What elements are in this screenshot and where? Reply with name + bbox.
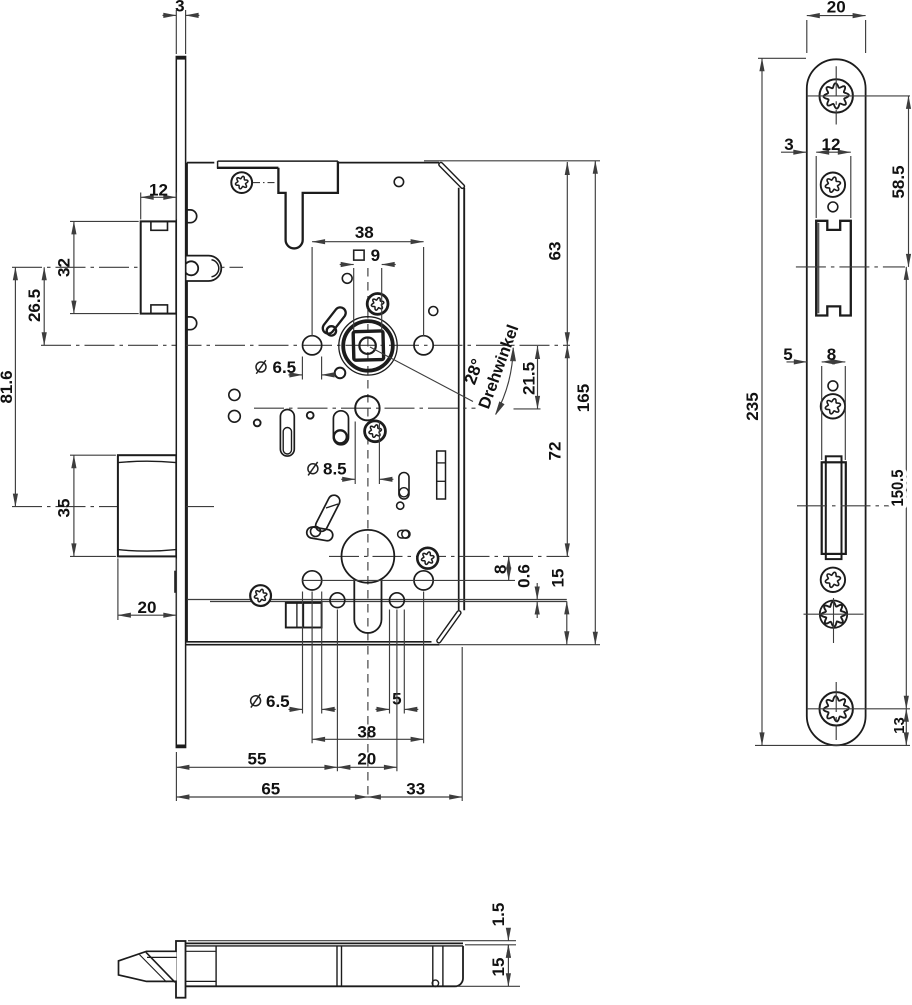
dim 15 bottom view (457, 985, 520, 987)
top edge band (218, 160, 338, 162)
svg-text:8.5: 8.5 (323, 459, 347, 478)
dim 38 bottom (311, 592, 313, 744)
dim 6.5 follower row (256, 362, 266, 372)
deadbolt slot (826, 456, 842, 559)
hole small 1 (828, 202, 838, 212)
dim 20 bottom (337, 766, 397, 768)
lock case outline (186, 163, 188, 642)
chamfer corner bottom-right (437, 611, 461, 643)
dim square 9 (354, 250, 364, 260)
hole 6.5 left (303, 336, 322, 355)
hole 6.5 right (414, 336, 433, 355)
svg-text:12: 12 (822, 135, 841, 154)
slot oblong 2 (333, 411, 348, 445)
follower (square spindle hub) (339, 317, 397, 375)
cylinder hole euro profile (342, 530, 395, 583)
svg-text:35: 35 (54, 499, 73, 518)
dim 33 (461, 647, 463, 801)
dim 35 deadbolt height (70, 454, 116, 456)
small hole c (429, 307, 438, 316)
dim 26.5 (43, 267, 45, 345)
svg-text:15: 15 (489, 958, 508, 977)
dim 0.6 right (536, 583, 538, 600)
hub centerline (254, 407, 476, 409)
cylinder horizontal centerline (329, 555, 569, 557)
drehwinkel arc (496, 348, 514, 415)
dim 8.5 hub (308, 464, 318, 474)
screw small 3 (821, 568, 845, 592)
dim 5 and 8 (821, 366, 823, 460)
dim 165 (440, 644, 600, 646)
dim 13 (807, 708, 910, 710)
hole small 2 (828, 381, 838, 391)
svg-text:6.5: 6.5 (266, 692, 290, 711)
svg-text:3: 3 (784, 135, 793, 154)
hole 5 lower-right (390, 593, 405, 608)
leader 28 deg (370, 347, 473, 402)
svg-text:65: 65 (261, 779, 280, 798)
dim 38 top (311, 247, 313, 336)
svg-text:72: 72 (546, 442, 565, 461)
dim 58.5 (908, 96, 910, 267)
case edge tab 2 (187, 317, 197, 330)
latch bolt (141, 221, 177, 313)
dim 65 (176, 796, 368, 798)
hole 6.5 lower-left (303, 571, 322, 590)
bottom view faceplate bar (176, 941, 186, 998)
torx screw D (250, 585, 271, 606)
svg-text:33: 33 (406, 779, 425, 798)
change lever (316, 495, 340, 531)
dim 3 faceplate thickness (175, 10, 177, 54)
small hole e (229, 410, 241, 422)
latch bolt centerline (12, 266, 243, 268)
svg-text:5: 5 (783, 345, 792, 364)
torx screw C (365, 421, 386, 442)
dim 20 deadbolt depth (117, 558, 119, 620)
svg-text:20: 20 (138, 598, 157, 617)
faceplate front outline (807, 59, 866, 745)
deadbolt slot centerline (797, 505, 905, 507)
svg-text:55: 55 (248, 749, 267, 768)
svg-text:20: 20 (827, 0, 846, 17)
svg-text:38: 38 (355, 223, 374, 242)
small hole i (335, 368, 346, 379)
svg-text:0.6: 0.6 (515, 564, 534, 588)
dim 235 (758, 57, 806, 59)
bottom view latch head (119, 951, 177, 981)
svg-text:8: 8 (827, 345, 836, 364)
svg-text:8: 8 (491, 565, 510, 574)
svg-text:58.5: 58.5 (889, 165, 908, 198)
dim 32 latch height (70, 220, 139, 222)
dim 150.5 (905, 267, 907, 709)
case edge tab 1 (187, 210, 197, 223)
svg-text:38: 38 (357, 723, 376, 742)
slanted slot near follower (323, 307, 346, 333)
screw small 1 (821, 173, 845, 197)
deadbolt stop bar (174, 571, 177, 593)
screw small 2 (821, 394, 845, 418)
svg-text:165: 165 (574, 384, 593, 412)
small hole b (394, 177, 403, 186)
side channel rect (437, 451, 446, 499)
follower centerline (41, 344, 570, 346)
bottom view small circle (432, 980, 438, 986)
dim 20 plate width (806, 20, 808, 53)
svg-text:150.5: 150.5 (888, 470, 907, 507)
svg-text:32: 32 (54, 258, 73, 277)
rosette (820, 601, 847, 628)
svg-text:1.5: 1.5 (489, 903, 508, 927)
svg-text:21.5: 21.5 (520, 362, 539, 395)
dim 63 (424, 160, 600, 162)
small hole f (254, 420, 261, 427)
inner bottom plate line (187, 599, 567, 601)
svg-text:63: 63 (546, 242, 565, 261)
torx screw A (231, 172, 252, 193)
svg-text:13: 13 (891, 717, 908, 734)
small pin slot right (398, 530, 409, 538)
svg-text:9: 9 (371, 246, 380, 265)
small hole h (397, 502, 404, 509)
screw top big (820, 79, 853, 112)
dim 15 right (566, 601, 568, 644)
svg-text:12: 12 (149, 180, 168, 199)
bottom view case (186, 942, 463, 944)
svg-text:20: 20 (357, 749, 376, 768)
deadbolt (118, 455, 176, 556)
dim 72 (566, 345, 568, 556)
slot oblong 3 (399, 473, 409, 500)
small hole a (342, 274, 352, 284)
dim 8 right (302, 579, 515, 581)
faceplate side view (176, 57, 185, 748)
latch slot (816, 221, 851, 316)
chamfer corner top-right (439, 162, 464, 188)
bottom small rect (286, 603, 322, 628)
dim 1.5 (188, 940, 516, 942)
dim 55 (175, 752, 177, 801)
latch pin clip (184, 261, 198, 275)
torx screw E (417, 548, 438, 569)
dim 3 and 12 slot (815, 156, 817, 218)
svg-text:6.5: 6.5 (273, 358, 297, 377)
dim 81.6 (14, 267, 16, 506)
screw bottom big (820, 692, 853, 725)
dim 6.5 bottom (251, 696, 261, 706)
cylinder vertical centerline (367, 268, 369, 797)
svg-text:81.6: 81.6 (0, 370, 16, 403)
slot oblong 1 (280, 410, 294, 457)
T-shaped cutout (278, 161, 338, 248)
deadbolt centerline (12, 506, 214, 508)
hole 5 lower-left (330, 593, 345, 608)
latch slot centerline (796, 266, 905, 268)
hub circle below follower (355, 396, 379, 420)
hole 6.5 lower-right (414, 571, 433, 590)
dim 21.5 (537, 346, 539, 409)
dim 12 latch width (140, 193, 142, 220)
svg-text:15: 15 (549, 569, 568, 588)
latch pin (187, 256, 222, 281)
svg-text:235: 235 (743, 392, 762, 420)
svg-text:3: 3 (175, 0, 184, 16)
svg-text:26.5: 26.5 (25, 289, 44, 322)
small hole g (307, 412, 314, 419)
small hole d (229, 389, 240, 400)
torx screw B (367, 294, 388, 315)
